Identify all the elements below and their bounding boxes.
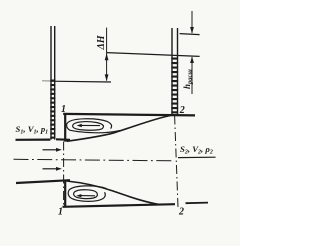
- h_rassh dimension lower arrow: [191, 57, 193, 94]
- piezometer tube 1 right wall: [54, 26, 56, 140]
- eddy (lower recirculation zone): [68, 186, 106, 201]
- narrow pipe top wall (right of piezometer 1): [56, 138, 70, 141]
- pipe centerline (dash-dot axis): [14, 159, 173, 161]
- water level line of tube 1: [51, 80, 112, 83]
- piezometer tube 1 left wall: [50, 26, 52, 140]
- narrow pipe top wall (left of piezometer 1): [16, 139, 51, 141]
- expansion step upper face: [64, 114, 66, 142]
- flow arrow upper: [43, 149, 58, 151]
- svg-text:S2, V2, ρ2: S2, V2, ρ2: [180, 144, 213, 156]
- h_rassh dimension upper arrow: [191, 11, 193, 33]
- piezometer tube 1 water column hatching: [50, 80, 55, 139]
- svg-text:hрасш: hрасш: [182, 69, 194, 89]
- section 1 line (vertical dash-dot): [63, 142, 65, 207]
- jet boundary upper (dividing streamline): [67, 115, 173, 141]
- svg-text:2: 2: [178, 207, 184, 218]
- flow arrow lower: [43, 168, 58, 170]
- svg-text:2: 2: [179, 105, 185, 116]
- svg-text:S1, V1, p1: S1, V1, p1: [16, 124, 49, 136]
- piezometer tube 2 water column hatching: [171, 58, 178, 114]
- wide pipe top wall: [63, 114, 195, 116]
- svg-text:ΔH: ΔH: [96, 34, 107, 50]
- eddy (upper recirculation zone): [67, 119, 120, 133]
- wide pipe bottom wall: [63, 204, 176, 207]
- section 2 line (vertical dash-dot): [175, 116, 178, 208]
- piezometer tube 2 right wall: [177, 28, 179, 115]
- dH dimension line: [106, 28, 108, 81]
- wide pipe bottom wall right of label 2: [186, 202, 209, 205]
- underline of S2,V2,rho2: [178, 156, 216, 158]
- water level line of tube 1 (faint tick left of tube): [42, 80, 51, 82]
- expansion step lower face: [64, 180, 66, 207]
- svg-text:1: 1: [61, 104, 66, 115]
- piezometer tube 2 left wall: [171, 28, 173, 115]
- water level line of tube 2 (extended to dH marker): [107, 53, 200, 57]
- jet boundary lower (dividing streamline): [67, 181, 161, 205]
- svg-text:1: 1: [58, 207, 63, 218]
- ideal (no-loss) level reference line: [180, 34, 200, 35]
- narrow pipe bottom wall: [16, 180, 70, 183]
- eddy arrow (lower): [80, 195, 95, 197]
- eddy arrow (upper): [80, 124, 100, 126]
